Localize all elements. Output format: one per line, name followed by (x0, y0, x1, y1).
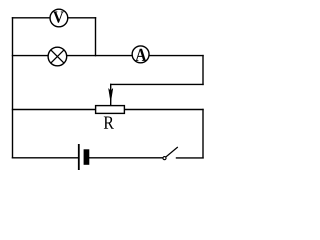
wire wiper row (111, 83, 203, 85)
voltmeter U-V (50, 9, 68, 27)
switch S lever (166, 147, 178, 157)
wire bottom rail (13, 157, 204, 159)
battery cell long plate (+) (78, 144, 80, 170)
wire top row (voltmeter branch) (13, 17, 96, 19)
switch S pivot (163, 157, 166, 160)
lamp L1 (48, 47, 67, 66)
wire right vertical upper (202, 56, 204, 85)
wire lamp-ammeter row (13, 55, 204, 57)
label R (104, 117, 114, 129)
rheostat R body (96, 106, 125, 114)
wire voltmeter branch vertical (95, 18, 97, 56)
wire right vertical lower (202, 110, 204, 158)
wire rheostat row (13, 109, 204, 111)
wire wiper arrow stem (110, 84, 112, 105)
wire left vertical rail (12, 18, 14, 158)
rheostat wiper arrowhead (109, 89, 113, 102)
ammeter A (132, 46, 149, 63)
battery cell short thick plate (-) (84, 149, 90, 165)
